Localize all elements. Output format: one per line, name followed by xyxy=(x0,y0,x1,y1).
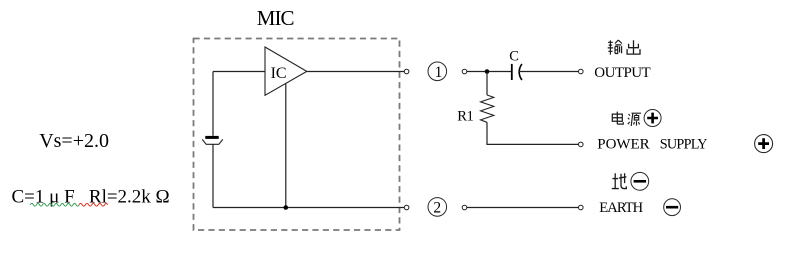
wire node1 to capacitor xyxy=(467,71,511,73)
label dianyuan char dian xyxy=(612,112,623,125)
plus circle after dianyuan xyxy=(644,110,661,127)
minus circle after di xyxy=(631,172,649,190)
wire left vertical upper xyxy=(212,72,214,136)
wire node2 to earth terminal xyxy=(467,207,579,209)
terminal pin 1 right xyxy=(462,69,467,74)
label shuchu char shu xyxy=(608,40,622,55)
svg-text:C: C xyxy=(509,49,519,65)
wire left vertical lower xyxy=(212,144,214,207)
svg-text:1: 1 xyxy=(435,64,443,81)
electret capsule capacitor plate xyxy=(205,136,218,139)
svg-text:POWER: POWER xyxy=(597,137,649,153)
resistor R1 zigzag xyxy=(481,95,494,122)
wire capacitor to output terminal xyxy=(519,71,579,73)
electret capsule curved plate xyxy=(202,139,223,144)
terminal earth xyxy=(579,205,584,210)
svg-text:2: 2 xyxy=(433,199,441,216)
label di char xyxy=(612,173,627,188)
svg-text:SUPPLY: SUPPLY xyxy=(660,137,707,153)
junction dot bottom xyxy=(284,205,289,210)
grammar squiggle green xyxy=(30,203,79,206)
minus circle after EARTH xyxy=(664,199,681,216)
terminal pin 2 left xyxy=(404,205,409,210)
spell squiggle red xyxy=(79,203,108,206)
terminal output xyxy=(579,69,584,74)
wire from op-amp bottom edge down xyxy=(285,84,287,208)
svg-text:MIC: MIC xyxy=(257,6,294,30)
resistor R1 top lead xyxy=(486,72,488,96)
svg-text:OUTPUT: OUTPUT xyxy=(594,65,650,81)
resistor R1 bottom lead xyxy=(487,122,579,144)
svg-text:C=1 μ F Rl=2.2k Ω: C=1 μ F Rl=2.2k Ω xyxy=(12,187,170,208)
label shuchu char chu xyxy=(627,40,640,54)
node 1 circled xyxy=(428,62,447,81)
label dianyuan char yuan xyxy=(628,113,641,126)
capacitor C left plate xyxy=(511,64,513,80)
junction dot node1 xyxy=(485,69,490,74)
wire input to op-amp xyxy=(213,71,265,73)
svg-text:IC: IC xyxy=(271,65,287,82)
svg-text:R1: R1 xyxy=(457,109,473,125)
svg-text:Vs=+2.0: Vs=+2.0 xyxy=(39,130,109,152)
wire op-amp output xyxy=(307,71,405,73)
capacitor C curved plate xyxy=(519,64,522,80)
svg-text:EARTH: EARTH xyxy=(599,200,643,216)
wire node2 stub from box xyxy=(403,207,405,209)
terminal pin 1 left xyxy=(404,69,409,74)
dashed enclosure (MIC module) xyxy=(194,39,400,231)
terminal power supply xyxy=(579,142,584,147)
op-amp U1 IC triangle xyxy=(265,47,307,95)
terminal pin 2 right xyxy=(462,205,467,210)
node 2 circled xyxy=(428,198,447,217)
wire bottom horizontal xyxy=(213,207,404,209)
plus circle far right xyxy=(755,135,773,153)
